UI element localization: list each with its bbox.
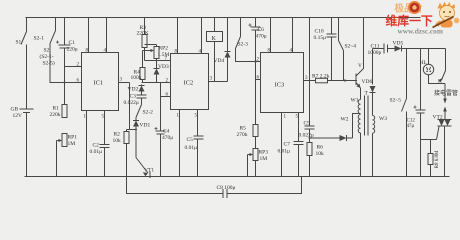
transistor VT1	[136, 130, 154, 179]
relay contact K	[438, 49, 446, 85]
svg-text:W3: W3	[379, 116, 387, 122]
svg-text:R1: R1	[53, 106, 60, 112]
transformer core	[365, 91, 369, 136]
svg-text:S2-3: S2-3	[238, 42, 249, 48]
capacitor C6	[249, 18, 267, 62]
resistor R4	[131, 51, 146, 83]
svg-text:R5: R5	[240, 126, 247, 132]
svg-text:C4: C4	[163, 129, 170, 135]
svg-text:1M: 1M	[260, 156, 268, 162]
wire tap drop	[353, 114, 361, 139]
wire IC1 pin4	[104, 18, 107, 54]
svg-text:GB: GB	[11, 107, 19, 113]
wire IC1 pin3 stub	[119, 78, 130, 130]
wire RP3 wiper down	[247, 155, 249, 177]
relay K coil	[207, 18, 223, 82]
capacitor C1	[56, 18, 78, 105]
op IC1 box	[82, 53, 119, 111]
svg-text:VD4: VD4	[214, 58, 225, 64]
svg-text:1M: 1M	[68, 141, 76, 147]
wire VD1 node to R2	[127, 129, 137, 131]
svg-text:S2~4: S2~4	[345, 44, 357, 50]
op IC3 box	[261, 53, 304, 113]
svg-text:C10: C10	[315, 29, 324, 35]
wire IC3 pin8	[268, 18, 271, 54]
svg-text:1.5M: 1.5M	[158, 52, 170, 58]
svg-text:R2: R2	[114, 132, 121, 138]
svg-text:S2-2: S2-2	[143, 110, 154, 116]
svg-text:C11: C11	[371, 44, 380, 50]
svg-text:RP3: RP3	[259, 150, 269, 156]
svg-text:C5: C5	[187, 137, 194, 143]
wire IC1 pin1	[84, 111, 87, 177]
svg-text:470μ: 470μ	[162, 135, 173, 141]
svg-text:0.022μ: 0.022μ	[124, 100, 139, 106]
wire IC1 pin2 stub	[65, 66, 82, 68]
svg-text:S2-5): S2-5)	[43, 60, 55, 67]
transformer winding W3	[373, 116, 388, 177]
wire IC3 pin2 stub	[256, 58, 261, 63]
transformer winding W2	[341, 115, 361, 177]
wire IC2 pin1	[177, 110, 180, 177]
wire IC2 pin7 stub	[145, 57, 171, 62]
diode VD5	[393, 41, 446, 52]
watermark mascot	[395, 1, 460, 28]
resistor R2	[113, 130, 130, 177]
svg-text:10k: 10k	[316, 151, 325, 157]
capacitor C4	[155, 127, 174, 177]
svg-text:0.01μ: 0.01μ	[185, 145, 198, 151]
svg-text:HL: HL	[420, 60, 428, 66]
svg-text:100k: 100k	[131, 75, 142, 81]
switch S2-4	[339, 18, 357, 82]
battery GB 12V	[11, 107, 34, 177]
node S2-3 C6 junction	[254, 60, 256, 62]
svg-text:0.01μ: 0.01μ	[278, 149, 291, 155]
svg-text:470μ: 470μ	[256, 34, 267, 40]
diode VD3	[154, 61, 169, 83]
svg-text:270k: 270k	[237, 132, 248, 138]
switch S2-5	[390, 49, 407, 177]
switch S1	[16, 18, 27, 46]
svg-text:VD2: VD2	[128, 87, 139, 93]
wire IC2 pin4	[199, 18, 202, 55]
svg-text:0.022μ: 0.022μ	[299, 132, 314, 138]
resistor R1	[50, 105, 68, 119]
wire IC2 pin3 stub	[209, 77, 228, 82]
resistor R6	[307, 143, 324, 177]
svg-text:VD6: VD6	[362, 79, 373, 85]
svg-text:W1: W1	[351, 98, 359, 104]
op IC2 box	[171, 54, 209, 110]
capacitor C9	[299, 121, 315, 143]
svg-text:S2: S2	[44, 48, 50, 54]
resistor R3	[137, 18, 149, 61]
svg-text:RP2: RP2	[159, 46, 169, 52]
svg-text:VD5: VD5	[393, 41, 404, 47]
svg-text:R6: R6	[317, 145, 324, 151]
svg-text:C2: C2	[93, 143, 100, 149]
terminal arrows output	[443, 84, 447, 120]
svg-text:IC1: IC1	[94, 80, 104, 87]
wire IC1 pin5 + capacitor C2	[90, 111, 110, 177]
wire RP1 wiper down	[56, 141, 58, 177]
svg-text:1000p: 1000p	[368, 50, 382, 56]
wire lower aux line	[127, 177, 302, 194]
capacitor C8	[217, 185, 236, 198]
wire VT2 gate line	[421, 127, 440, 140]
svg-text:220μ: 220μ	[67, 47, 78, 53]
node VD1 bottom	[135, 129, 137, 131]
resistor R8	[428, 140, 440, 177]
switch S2-1	[34, 18, 56, 44]
diode VD2	[128, 85, 145, 95]
diode VD6	[362, 49, 376, 116]
svg-text:0.01μ: 0.01μ	[90, 149, 103, 155]
svg-text:C7: C7	[284, 142, 291, 148]
wire IC2 pin2 stub	[142, 79, 171, 84]
svg-text:C3: C3	[130, 94, 137, 100]
svg-text:R8 6.8M: R8 6.8M	[435, 150, 440, 168]
svg-text:C9: C9	[304, 121, 311, 127]
svg-text:S2-1: S2-1	[34, 36, 45, 42]
svg-text:(S2-1-: (S2-1-	[40, 53, 54, 60]
diode VD7 drive line	[310, 135, 353, 141]
wire IC1 pin8	[86, 18, 89, 54]
diode VD4	[214, 18, 231, 82]
capacitor C11	[368, 44, 395, 57]
wire C9 drop from bus	[309, 18, 311, 127]
node pin6 junction	[64, 82, 66, 84]
svg-text:VD3: VD3	[158, 64, 169, 70]
capacitor C12	[407, 49, 426, 177]
wire IC3 pin4	[290, 18, 293, 54]
svg-text:IC2: IC2	[184, 80, 194, 87]
svg-text:C8 100μ: C8 100μ	[217, 185, 236, 191]
wire IC2 pin6 chain	[161, 83, 171, 132]
wire IC2 pin5 + capacitor C5	[185, 110, 204, 177]
resistor R5	[237, 125, 259, 149]
wire IC3 pin1	[282, 113, 287, 177]
svg-text:RP1: RP1	[68, 135, 78, 141]
diode VD1	[133, 118, 150, 130]
svg-text:12V: 12V	[13, 113, 23, 119]
wire IC3 pin6 stub	[256, 62, 261, 125]
wire bottom bus	[25, 176, 450, 178]
svg-text:VT1: VT1	[144, 168, 154, 174]
svg-text:S1: S1	[16, 40, 22, 46]
wire IC3 pin5 + capacitor C7	[278, 113, 304, 177]
svg-text:IC3: IC3	[275, 82, 285, 89]
transformer winding W1	[351, 98, 361, 114]
potentiometer RP3	[248, 149, 269, 177]
svg-text:www.dzsc.com: www.dzsc.com	[398, 27, 443, 36]
svg-text:47μ: 47μ	[407, 124, 415, 129]
wire IC2 pin8	[175, 18, 178, 55]
label S2 group	[40, 48, 55, 67]
svg-text:0.15μ: 0.15μ	[314, 35, 327, 41]
potentiometer RP1	[57, 134, 78, 148]
switch S2-3	[236, 18, 256, 62]
lamp HL	[420, 49, 446, 84]
node C9 R6 junction	[309, 137, 311, 139]
switch S2-2	[136, 105, 153, 118]
svg-text:VT2: VT2	[433, 115, 443, 121]
wire top bus	[26, 17, 421, 19]
resistor R7	[304, 74, 358, 83]
svg-text:W2: W2	[341, 117, 349, 123]
transistor V	[356, 18, 364, 100]
svg-text:220K: 220K	[137, 31, 149, 37]
wire IC1 pin6 stub	[65, 82, 82, 84]
thyristor VT2	[433, 115, 452, 177]
svg-text:R7 2.2k: R7 2.2k	[312, 74, 330, 80]
svg-text:VD1: VD1	[140, 123, 151, 129]
capacitor C10	[314, 18, 337, 81]
pin labels IC1 left	[77, 63, 80, 84]
svg-text:C6: C6	[258, 27, 265, 33]
svg-text:C1: C1	[69, 40, 76, 46]
potentiometer RP2	[143, 45, 170, 61]
capacitor C3	[124, 94, 147, 107]
svg-text:V: V	[358, 63, 362, 69]
svg-text:K: K	[212, 36, 217, 42]
wire left column	[26, 45, 28, 107]
svg-text:S2~5: S2~5	[390, 98, 402, 104]
wire S2-1 down	[50, 44, 65, 83]
svg-text:220k: 220k	[50, 112, 61, 118]
svg-text:10k: 10k	[113, 138, 122, 144]
svg-text:K: K	[438, 79, 442, 85]
svg-text:接电雷管: 接电雷管	[434, 89, 458, 97]
svg-text:C12: C12	[407, 119, 416, 124]
